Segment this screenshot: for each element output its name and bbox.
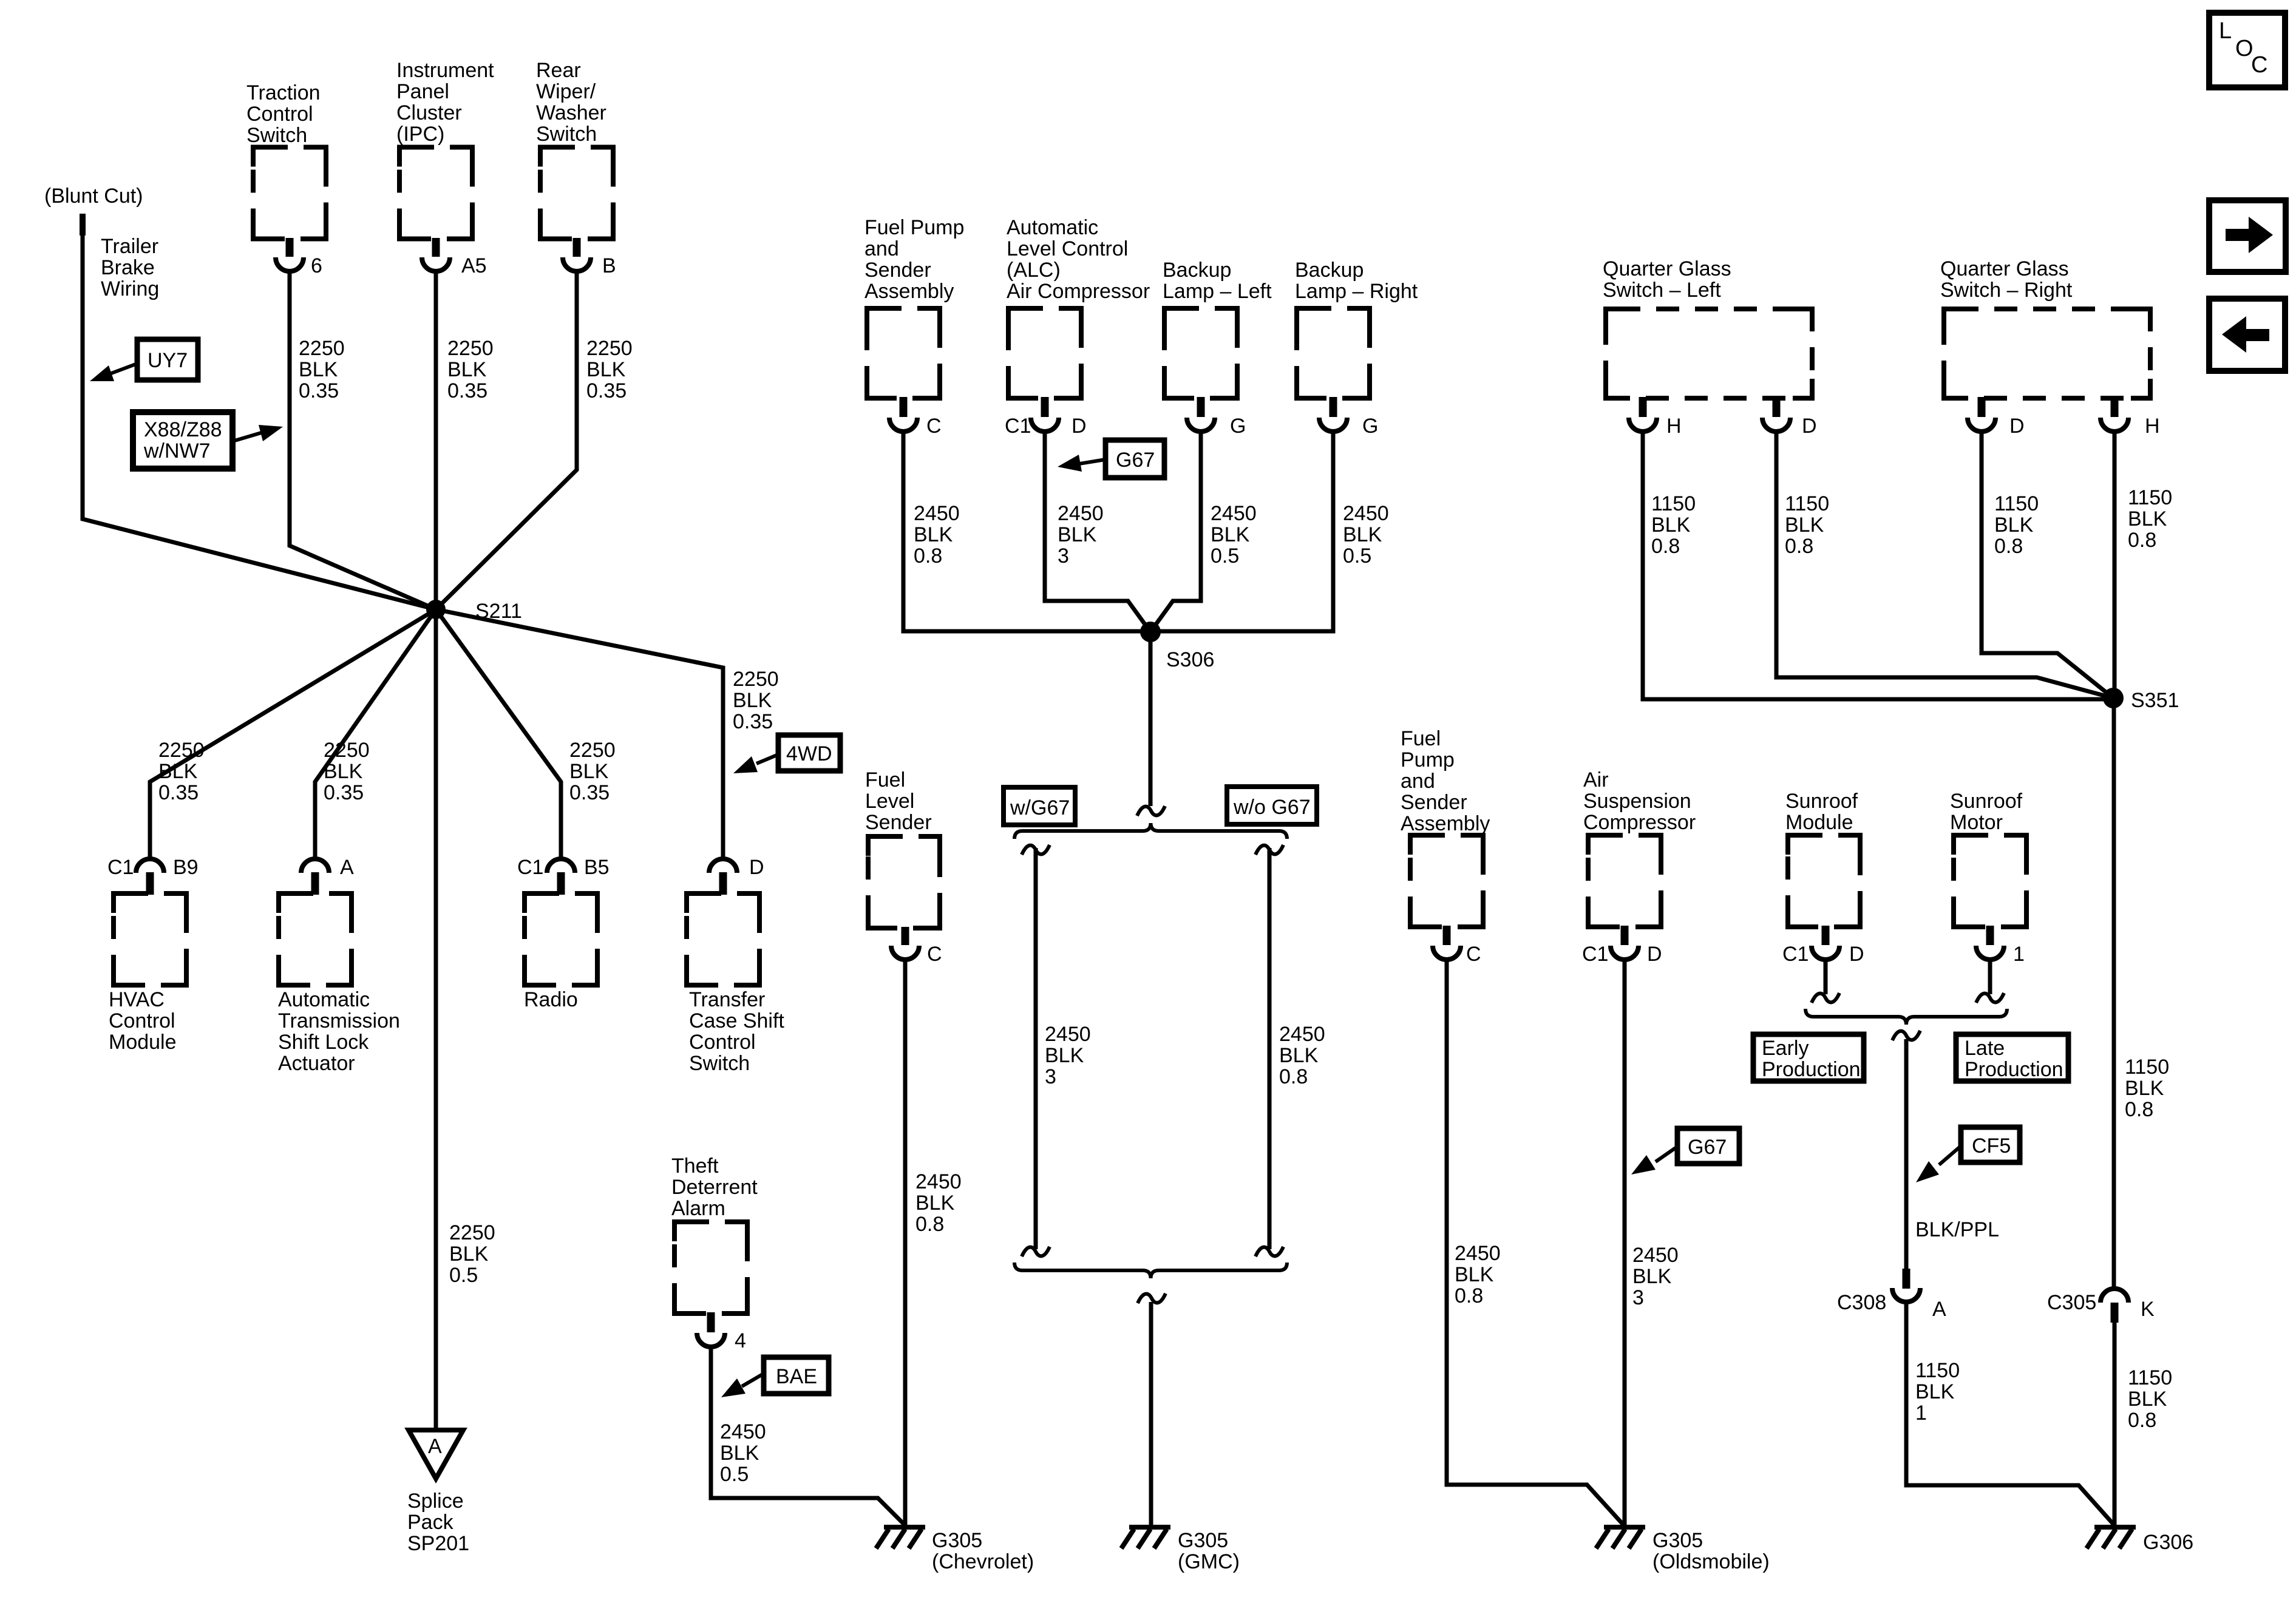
forward arrow	[2226, 217, 2273, 253]
wire w/G67 branch	[1034, 848, 1038, 1249]
wire S211 to transfer case switch	[436, 609, 723, 858]
svg-text:A: A	[428, 1435, 442, 1458]
splice S306	[1140, 622, 1161, 642]
connector pin C fuel pump 2	[1433, 926, 1461, 960]
connector pin D quarter glass left	[1762, 397, 1790, 432]
break squiggle sunroof motor	[1976, 993, 2004, 1003]
wire C305 to G306	[2113, 1323, 2117, 1525]
component box ALC Air Compressor	[1008, 308, 1081, 398]
connector pin C fuel level sender	[891, 927, 919, 960]
svg-text:6: 6	[311, 254, 322, 277]
component box Backup Lamp - Left	[1164, 308, 1237, 398]
svg-text:H: H	[2145, 415, 2160, 438]
wire quarter glass right H to S351	[2113, 432, 2117, 698]
wire w/o G67 branch	[1268, 848, 1272, 1249]
svg-text:BAE: BAE	[776, 1365, 817, 1388]
arrow BAE to theft wire	[721, 1374, 764, 1397]
component box Quarter Glass Switch - Left	[1606, 309, 1812, 398]
wire S211 to radio	[436, 609, 561, 858]
splice pack triangle A	[409, 1430, 463, 1479]
svg-text:S351: S351	[2131, 689, 2179, 712]
forward arrow box	[2209, 200, 2286, 272]
brace sunroof early/late	[1805, 1009, 2007, 1025]
wire sunroof motor stub	[1988, 960, 1992, 994]
wire fuel pump to S306	[903, 432, 1150, 631]
wire sunroof to C308	[1904, 1039, 1909, 1270]
component box Radio	[525, 893, 597, 985]
connector pin B Rear Wiper/Washer Switch	[563, 238, 591, 271]
arrow X88/Z88 to traction wire	[233, 425, 283, 441]
option box CF5	[1961, 1127, 2020, 1162]
connector pin G backup lamp left	[1187, 397, 1215, 432]
svg-text:w/G67: w/G67	[1010, 796, 1070, 819]
break squiggle sunroof combined wire	[1892, 1031, 1920, 1040]
svg-text:D: D	[1647, 943, 1662, 966]
wire sunroof module stub	[1824, 960, 1828, 994]
connector pin B5 radio	[547, 859, 575, 895]
svg-text:B: B	[602, 254, 616, 277]
svg-text:1: 1	[2013, 943, 2025, 966]
svg-text:Radio: Radio	[524, 988, 578, 1011]
wire to G305 GMC	[1149, 1302, 1153, 1525]
svg-text:w/o G67: w/o G67	[1233, 796, 1311, 819]
wire S351 to C305	[2112, 698, 2116, 1289]
svg-text:C: C	[2251, 52, 2267, 78]
ground G306	[2087, 1527, 2136, 1548]
component box Transfer Case Shift Control Switch	[687, 893, 759, 985]
svg-text:C308: C308	[1837, 1291, 1886, 1314]
component box IPC	[399, 147, 472, 239]
wire S306 down	[1149, 632, 1153, 806]
wire quarter glass left D to S351	[1776, 432, 2113, 698]
option box G67	[1106, 440, 1164, 478]
connector pin D sunroof module	[1812, 926, 1839, 960]
connector pin 1 sunroof motor	[1976, 926, 2004, 960]
connector pin C fuel pump	[889, 397, 917, 432]
wire backup lamp left to S306	[1150, 432, 1201, 632]
svg-text:G306: G306	[2143, 1531, 2193, 1554]
svg-text:A: A	[1932, 1298, 1946, 1321]
svg-text:C: C	[926, 415, 942, 438]
svg-text:C1: C1	[1582, 943, 1608, 966]
svg-text:C1: C1	[107, 856, 134, 879]
blunt cut tick	[80, 214, 86, 236]
svg-text:S306: S306	[1166, 648, 1214, 671]
component box Fuel Pump and Sender Assembly	[867, 308, 940, 398]
wire trailer brake to S211	[83, 234, 436, 609]
component box Quarter Glass Switch - Right	[1944, 309, 2150, 398]
component box Backup Lamp - Right	[1297, 308, 1370, 398]
svg-text:K: K	[2141, 1298, 2155, 1321]
back arrow	[2222, 316, 2269, 353]
svg-text:D: D	[749, 856, 764, 879]
break squiggle above G305 GMC wire	[1138, 1293, 1166, 1303]
option box w/G67	[1004, 787, 1075, 825]
brace bottom to G305 GMC	[1014, 1263, 1287, 1278]
connector pin A5 IPC	[422, 238, 450, 271]
connector pin G backup lamp right	[1319, 397, 1347, 432]
break squiggle w/o G67 wire bottom	[1255, 1247, 1283, 1256]
svg-text:C1: C1	[1005, 415, 1031, 438]
ground G305 (Chevrolet)	[876, 1527, 925, 1548]
arrow G67 to ALC wire	[1058, 455, 1106, 472]
break squiggle below S306	[1137, 806, 1165, 816]
ground G305 (Oldsmobile)	[1596, 1527, 1645, 1548]
svg-text:C1: C1	[517, 856, 543, 879]
LOC box	[2209, 13, 2285, 87]
break squiggle w/o G67 wire top	[1255, 845, 1283, 855]
wire IPC to S211	[434, 271, 438, 601]
wire backup lamp right to S306	[1150, 432, 1333, 631]
component box Fuel Level Sender	[868, 836, 940, 928]
arrow CF5 to sunroof wire	[1916, 1146, 1961, 1182]
svg-text:BLK/PPL: BLK/PPL	[1915, 1218, 1999, 1241]
component box Rear Wiper/Washer Switch	[540, 147, 613, 239]
svg-text:CF5: CF5	[1972, 1134, 2011, 1158]
connector pin B9 HVAC	[136, 859, 164, 895]
splice S211	[426, 600, 446, 619]
wire C308 to G306	[1906, 1302, 2114, 1525]
option box BAE	[764, 1357, 829, 1394]
wire air suspension to G305 Oldsmobile	[1623, 960, 1627, 1525]
svg-text:(Blunt Cut): (Blunt Cut)	[44, 185, 143, 208]
svg-text:A5: A5	[461, 254, 487, 277]
splice S351	[2103, 688, 2124, 708]
svg-text:B9: B9	[173, 856, 199, 879]
wire theft alarm to G305	[711, 1347, 905, 1525]
svg-text:G67: G67	[1116, 449, 1155, 472]
svg-text:G: G	[1362, 415, 1378, 438]
svg-text:4: 4	[735, 1329, 746, 1352]
component box Sunroof Module	[1788, 835, 1860, 927]
inline connector C305 pin K	[2101, 1289, 2128, 1323]
svg-text:D: D	[1072, 415, 1087, 438]
wire S211 to HVAC	[150, 609, 436, 858]
svg-text:C305: C305	[2047, 1291, 2096, 1314]
arrow 4WD to transfer case wire	[733, 754, 778, 773]
svg-text:C: C	[1466, 943, 1481, 966]
svg-text:Quarter GlassSwitch – Right: Quarter GlassSwitch – Right	[1940, 257, 2073, 302]
svg-text:D: D	[1849, 943, 1864, 966]
option box G67 second	[1677, 1128, 1739, 1164]
option box w/o G67	[1227, 787, 1317, 824]
break squiggle sunroof module	[1812, 993, 1839, 1003]
svg-text:A: A	[340, 856, 354, 879]
wire fuel level sender to G305	[903, 960, 908, 1525]
svg-text:B5: B5	[584, 856, 610, 879]
connector pin 6 Traction Control Switch	[276, 238, 304, 271]
arrow G67 to air suspension wire	[1631, 1147, 1677, 1175]
connector pin 4 theft deterrent alarm	[697, 1312, 725, 1347]
svg-text:X88/Z88w/NW7: X88/Z88w/NW7	[143, 418, 222, 463]
wire rear wiper to S211	[436, 271, 577, 609]
wire fuel pump 2 to G305 Oldsmobile	[1447, 960, 1623, 1525]
connector pin D ALC	[1031, 397, 1059, 432]
option box Late Production	[1956, 1034, 2068, 1081]
wire traction to S211	[290, 271, 436, 609]
break squiggle w/G67 wire top	[1022, 845, 1050, 855]
connector pin D air suspension	[1611, 926, 1639, 960]
wire S211 to splice pack SP201	[434, 609, 438, 1430]
svg-text:D: D	[1802, 415, 1817, 438]
connector pin D quarter glass right	[1968, 397, 1995, 432]
component box Theft Deterrent Alarm	[674, 1222, 747, 1314]
component box Air Suspension Compressor	[1588, 835, 1661, 927]
inline connector C308 pin A	[1892, 1269, 1920, 1302]
brace w/G67 w/o G67 top	[1014, 823, 1287, 839]
svg-text:4WD: 4WD	[786, 742, 832, 765]
option box X88/Z88 w/NW7	[133, 412, 233, 469]
option box 4WD	[778, 735, 840, 771]
wire S211 to shift lock actuator	[315, 609, 436, 858]
svg-text:G67: G67	[1688, 1136, 1727, 1159]
wire quarter glass right D to S351	[1982, 432, 2113, 698]
component box HVAC Control Module	[114, 893, 186, 985]
component box Automatic Transmission Shift Lock Actuator	[279, 893, 352, 985]
option box Early Production	[1753, 1034, 1864, 1081]
svg-text:SunroofModule: SunroofModule	[1785, 790, 1858, 834]
svg-text:C1: C1	[1782, 943, 1809, 966]
svg-text:UY7: UY7	[148, 349, 188, 372]
connector pin H quarter glass right	[2101, 397, 2128, 432]
component box Sunroof Motor	[1954, 835, 2026, 927]
break squiggle w/G67 wire bottom	[1022, 1247, 1050, 1256]
svg-text:C: C	[927, 943, 942, 966]
connector pin A shift lock	[301, 859, 329, 895]
option box UY7	[137, 339, 198, 380]
svg-text:Quarter GlassSwitch – Left: Quarter GlassSwitch – Left	[1603, 257, 1731, 302]
component box Traction Control Switch	[253, 147, 326, 239]
arrow UY7 to trailer wire	[90, 364, 137, 381]
svg-text:D: D	[2009, 415, 2025, 438]
component box Fuel Pump and Sender Assembly 2	[1410, 835, 1483, 927]
svg-text:H: H	[1666, 415, 1682, 438]
svg-text:L: L	[2219, 18, 2232, 44]
svg-text:G: G	[1230, 415, 1246, 438]
connector pin D transfer case	[709, 859, 737, 895]
back arrow box	[2209, 299, 2285, 371]
ground G305 (GMC)	[1121, 1527, 1170, 1548]
wire quarter glass left H to S351	[1643, 432, 2113, 699]
svg-text:TrailerBrakeWiring: TrailerBrakeWiring	[101, 235, 159, 300]
wire ALC to S306	[1045, 432, 1150, 632]
connector pin H quarter glass left	[1629, 397, 1657, 432]
